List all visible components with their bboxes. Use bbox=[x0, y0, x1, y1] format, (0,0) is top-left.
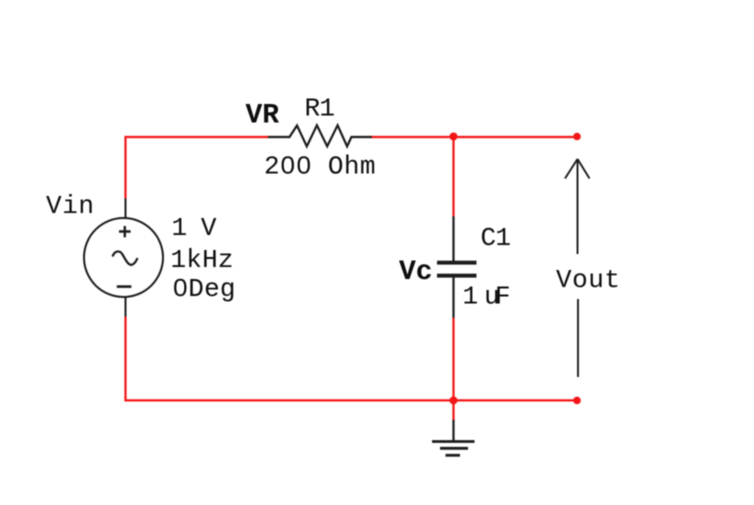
wire top right horizontal (red) bbox=[370, 136, 577, 138]
zero glyph dot masks bbox=[285, 163, 289, 168]
capacitor C1 bottom plate bbox=[437, 274, 477, 278]
svg-text:Vc: Vc bbox=[399, 257, 433, 288]
svg-text:200 Ohm: 200 Ohm bbox=[264, 152, 376, 182]
svg-text:R1: R1 bbox=[305, 94, 336, 124]
resistor R1 bbox=[269, 125, 371, 146]
wire top left horizontal (red) bbox=[125, 136, 270, 138]
wire left vertical black stub below source bbox=[125, 297, 127, 318]
svg-text:Vout: Vout bbox=[556, 265, 620, 295]
voltage source minus sign bbox=[117, 285, 132, 288]
wire capacitor branch black below plate bbox=[452, 277, 454, 319]
svg-text:Vin: Vin bbox=[46, 191, 94, 221]
capacitor C1 top plate bbox=[437, 261, 477, 265]
voltage source sine wave bbox=[113, 251, 138, 264]
node terminal dot top right Vout+ bbox=[573, 133, 581, 141]
wire ground stub red bbox=[452, 400, 454, 420]
wire ground stub black bbox=[452, 420, 454, 442]
svg-text:1 V: 1 V bbox=[172, 213, 217, 243]
svg-text:C1: C1 bbox=[481, 223, 512, 253]
Vout arrow head bbox=[565, 159, 590, 179]
wire capacitor branch red lower bbox=[452, 318, 454, 400]
svg-text:1kHz: 1kHz bbox=[171, 245, 234, 275]
svg-text:1 uF: 1 uF bbox=[463, 281, 511, 311]
node junction dot bottom (capacitor/ground) bbox=[450, 396, 458, 404]
wire left vertical red lower bbox=[124, 317, 126, 402]
node terminal dot bottom right Vout- bbox=[573, 397, 581, 405]
Vout arrow shaft upper bbox=[577, 160, 579, 255]
svg-text:VR: VR bbox=[246, 101, 280, 132]
wire bottom horizontal (red) bbox=[125, 399, 578, 401]
ground bar 1 bbox=[432, 440, 475, 443]
node junction dot top (capacitor/R1) bbox=[450, 133, 458, 141]
ground bar 3 bbox=[446, 454, 461, 457]
wire capacitor branch black above plate bbox=[452, 216, 454, 262]
Vout arrow shaft lower bbox=[577, 299, 579, 377]
ground bar 2 bbox=[440, 447, 468, 450]
voltage source plus sign bbox=[119, 226, 131, 237]
wire left vertical red upper bbox=[124, 136, 126, 199]
wire capacitor branch red upper bbox=[452, 136, 454, 217]
voltage source V1 circle bbox=[84, 218, 163, 297]
wire left vertical black stub above source bbox=[125, 198, 127, 218]
